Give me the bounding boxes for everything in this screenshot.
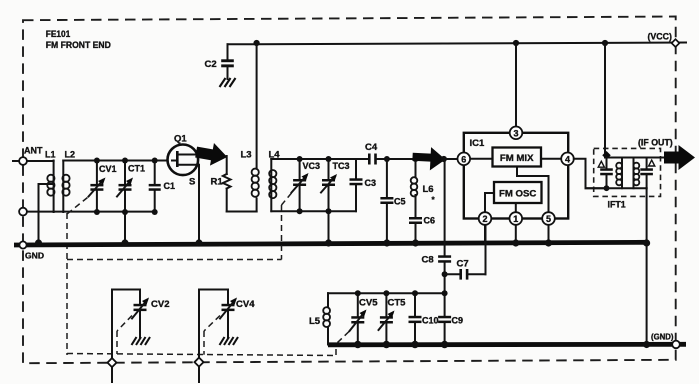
svg-text:L5: L5 bbox=[309, 316, 321, 327]
svg-text:VC3: VC3 bbox=[303, 161, 321, 171]
svg-text:L2: L2 bbox=[65, 150, 76, 160]
svg-text:C8: C8 bbox=[422, 255, 434, 266]
svg-text:3: 3 bbox=[513, 128, 518, 138]
svg-text:1: 1 bbox=[513, 214, 518, 224]
svg-text:C9: C9 bbox=[452, 316, 464, 326]
svg-text:ANT: ANT bbox=[24, 146, 43, 156]
svg-text:S: S bbox=[189, 177, 195, 188]
svg-text:TC3: TC3 bbox=[333, 161, 350, 171]
svg-text:L6: L6 bbox=[423, 184, 434, 195]
svg-text:CV1: CV1 bbox=[99, 164, 117, 174]
svg-text:R1: R1 bbox=[211, 177, 224, 188]
svg-text:C10: C10 bbox=[422, 316, 439, 326]
svg-text:CV2: CV2 bbox=[151, 299, 169, 310]
svg-text:IC1: IC1 bbox=[470, 138, 486, 149]
svg-text:L4: L4 bbox=[269, 150, 281, 161]
svg-text:CV5: CV5 bbox=[359, 298, 378, 309]
svg-text:IFT1: IFT1 bbox=[608, 200, 626, 210]
svg-text:FM OSC: FM OSC bbox=[499, 188, 536, 199]
svg-text:6: 6 bbox=[461, 154, 466, 164]
svg-text:C7: C7 bbox=[457, 259, 469, 270]
svg-text:Q1: Q1 bbox=[174, 134, 187, 145]
svg-text:C6: C6 bbox=[424, 216, 436, 226]
svg-text:2: 2 bbox=[482, 214, 487, 224]
svg-text:CT1: CT1 bbox=[128, 164, 145, 174]
svg-text:CT5: CT5 bbox=[388, 298, 407, 309]
svg-text:C3: C3 bbox=[365, 178, 377, 188]
svg-text:GND: GND bbox=[25, 251, 44, 261]
svg-text:C4: C4 bbox=[365, 142, 378, 153]
svg-text:(IF OUT): (IF OUT) bbox=[638, 138, 673, 148]
svg-text:C5: C5 bbox=[394, 197, 406, 207]
svg-text:(VCC): (VCC) bbox=[648, 32, 673, 42]
svg-text:C2: C2 bbox=[205, 59, 217, 70]
svg-text:5: 5 bbox=[546, 214, 551, 224]
svg-text:4: 4 bbox=[565, 154, 570, 164]
svg-text:C1: C1 bbox=[164, 181, 176, 191]
svg-text:FE101: FE101 bbox=[46, 29, 71, 39]
svg-text:FM MIX: FM MIX bbox=[500, 153, 534, 164]
svg-text:CV4: CV4 bbox=[236, 299, 255, 310]
svg-text:FM FRONT END: FM FRONT END bbox=[46, 40, 111, 50]
svg-text:L1: L1 bbox=[45, 150, 56, 160]
svg-text:L3: L3 bbox=[241, 150, 252, 161]
svg-text:(GND): (GND) bbox=[651, 333, 674, 342]
